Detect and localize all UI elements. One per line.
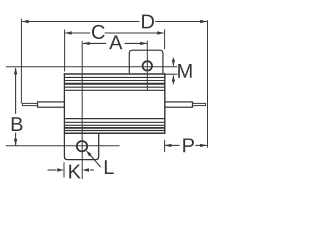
bottom fin line 2 <box>65 121 165 123</box>
dimension A line <box>83 42 106 44</box>
L leader arrowhead <box>86 150 92 156</box>
C right extension line <box>164 29 166 49</box>
A left arrowhead <box>83 42 90 45</box>
top fin line 3 (thick) <box>65 83 165 85</box>
M bottom extension line <box>165 73 178 75</box>
bottom fin line 3 <box>65 124 165 126</box>
top hole vertical centerline <box>146 41 148 91</box>
bottom fin line 4 (thick) <box>65 127 165 129</box>
dimension D line <box>22 21 139 23</box>
body left edge <box>63 73 65 134</box>
label L <box>105 160 114 174</box>
bottom hole horizontal centerline <box>6 145 120 147</box>
resistor body fill <box>64 73 165 134</box>
label P <box>183 138 194 152</box>
dimension P line <box>165 144 180 146</box>
D right arrowhead <box>200 20 207 23</box>
left lead thin tip <box>22 103 37 105</box>
B bottom arrowhead <box>14 139 17 146</box>
top fin line 2 <box>65 80 165 82</box>
M upper arrowhead (down) <box>172 60 175 66</box>
B top arrowhead <box>14 68 17 75</box>
right lead thick bar <box>165 102 193 107</box>
bottom hole vertical centerline <box>81 41 83 179</box>
bottom fin line 1 <box>65 118 165 120</box>
P right arrowhead <box>200 144 207 147</box>
dimension C line <box>65 32 90 34</box>
label A <box>109 36 122 50</box>
K right arrow <box>90 169 94 171</box>
label C <box>92 25 105 39</box>
label D <box>142 15 154 29</box>
D left arrowhead <box>22 20 29 23</box>
right lead thin tip <box>193 103 206 105</box>
body bottom edge <box>64 132 166 134</box>
top mounting tab <box>129 50 163 74</box>
K left arrowhead (points right) <box>57 168 64 171</box>
label K <box>69 165 80 179</box>
C left arrowhead <box>65 31 72 34</box>
bottom tab hole <box>77 141 87 151</box>
M lower arrow <box>172 76 174 85</box>
top fin line 1 <box>65 76 165 78</box>
C right arrowhead <box>157 31 164 34</box>
top fin line 5 <box>65 89 165 91</box>
dimension K arrows <box>48 169 57 171</box>
left lead thick bar <box>38 102 65 107</box>
K right arrowhead (points left) <box>82 168 89 171</box>
D left extension line <box>20 19 22 104</box>
C left extension line <box>64 29 66 71</box>
dimension B line <box>15 68 17 114</box>
D right extension line <box>207 20 209 147</box>
P left extension line <box>164 140 166 152</box>
M lower arrowhead (up) <box>172 75 175 81</box>
body right edge <box>164 73 166 134</box>
P left arrowhead <box>165 144 172 147</box>
bottom mounting tab <box>64 133 98 159</box>
K left extension line <box>63 162 65 177</box>
bottom fin line 5 <box>65 130 165 132</box>
top hole horizontal centerline <box>6 66 178 68</box>
label M <box>178 64 191 78</box>
top tab hole <box>143 61 152 70</box>
dimension M arrows <box>172 58 174 66</box>
A right arrowhead <box>140 42 147 45</box>
label B <box>12 117 23 131</box>
top fin line 4 <box>65 86 165 88</box>
L leader line <box>89 153 101 167</box>
body top edge <box>64 73 166 75</box>
